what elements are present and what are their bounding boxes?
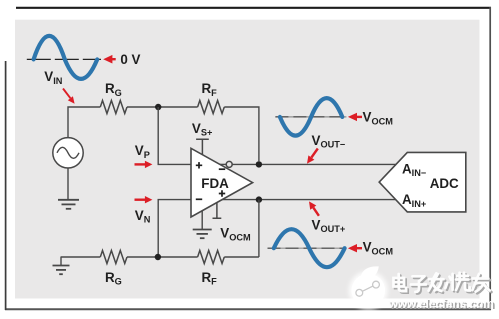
- wire: RF top feedback to output node: [224, 107, 259, 161]
- node: VOUT− junction dot: [256, 161, 262, 167]
- wire: bottom rail left (ground to RG): [61, 256, 100, 258]
- wire: input corner to RG (top rail): [68, 107, 100, 138]
- resistor RG (bottom): [100, 251, 127, 264]
- wire: bottom node up to VN input: [158, 200, 191, 257]
- resistor RG (top): [100, 101, 127, 114]
- arrow VOUT− (points down-left at wire): [307, 149, 318, 164]
- op-amp U1 FDA triangle: [191, 148, 253, 217]
- pin sign + (VP input): [196, 162, 202, 168]
- resistor RF (bottom): [198, 251, 225, 264]
- source sine symbol: [57, 147, 79, 158]
- wire: VOUT+ line to ADC: [222, 199, 396, 201]
- pin sign − (VN input): [196, 198, 202, 200]
- svg-text:ADC: ADC: [430, 176, 459, 191]
- wire: top node down to VP input: [158, 107, 191, 164]
- arrow 0V (points left): [103, 55, 116, 64]
- watermark chinese text (stylized strokes): [394, 273, 492, 294]
- arrow VN (points right): [135, 196, 153, 203]
- pin sign − (inverting output): [219, 168, 225, 170]
- arrow VP (points right): [135, 161, 153, 168]
- ground (below FDA): [193, 230, 212, 239]
- frame left line: [5, 61, 7, 310]
- VOUT− sine axis: [275, 116, 346, 118]
- ground (below source): [58, 200, 79, 209]
- wire: VOUT− line to ADC: [232, 163, 396, 165]
- wire: RF bottom to feedback corner: [224, 256, 259, 258]
- pin VOCM stub and terminal bar: [213, 203, 222, 219]
- arrow VOCM bottom (points left): [348, 244, 362, 252]
- svg-text:FDA: FDA: [201, 176, 229, 191]
- pin VS+ terminal bar and stub: [196, 139, 209, 155]
- inverting output circle: [226, 161, 232, 167]
- input sine wave VIN: [34, 36, 98, 79]
- source VIN generator circle: [53, 138, 83, 168]
- pin sign + (non-inverting output): [219, 190, 225, 196]
- svg-text:0 V: 0 V: [120, 52, 140, 67]
- arrow VIN (points down-right at input corner): [63, 89, 75, 104]
- VOUT+ sine wave: [274, 229, 345, 267]
- wire: FDA to ground stub: [201, 211, 203, 230]
- ADC block U2: [379, 152, 466, 212]
- VOUT− sine wave: [280, 98, 342, 135]
- wire: RG to summing node (top): [127, 106, 198, 108]
- wire: inverting output lead: [220, 163, 226, 165]
- resistor RF (top): [198, 101, 225, 114]
- node: VOUT+ junction dot: [256, 196, 262, 202]
- node: bottom summing junction dot: [155, 254, 161, 260]
- arrow VOUT+ (points up-left at wire): [309, 201, 319, 215]
- ground (bottom left): [53, 257, 70, 275]
- frame top line: [16, 7, 491, 9]
- frame right line: [489, 7, 491, 310]
- node: top summing junction dot: [155, 104, 161, 110]
- frame bottom line: [5, 308, 491, 310]
- arrow VOCM top (points left): [348, 113, 362, 121]
- wire: source to ground: [67, 168, 69, 200]
- VOUT+ sine axis: [268, 247, 346, 249]
- svg-text:www.elecfans.com: www.elecfans.com: [388, 296, 494, 310]
- wire: bottom feedback vertical: [258, 200, 260, 257]
- input sine axis (0 V reference, dashed): [27, 58, 101, 60]
- wire: RG to bottom summing node: [127, 256, 198, 258]
